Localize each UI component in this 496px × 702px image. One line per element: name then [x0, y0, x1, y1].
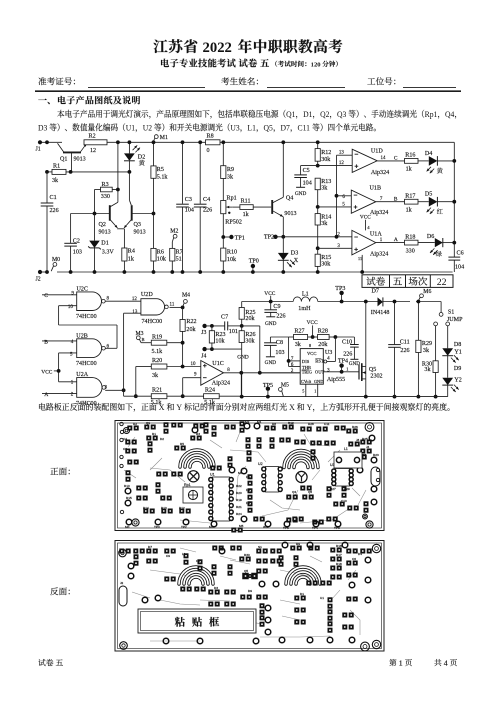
svg-text:10k: 10k	[157, 257, 167, 263]
wire: U1A gnd pin	[361, 255, 363, 272]
svg-text:C3: C3	[123, 447, 127, 451]
svg-text:1: 1	[314, 388, 316, 393]
svg-text:A: A	[394, 237, 398, 243]
svg-text:13: 13	[339, 151, 345, 156]
svg-text:GND: GND	[314, 379, 324, 384]
svg-text:1: 1	[71, 381, 74, 386]
svg-text:U1A: U1A	[370, 232, 382, 238]
svg-text:104: 104	[303, 180, 312, 186]
capacitor C11	[394, 302, 396, 345]
resistor R5	[153, 142, 155, 166]
svg-text:TP4: TP4	[312, 526, 318, 530]
svg-text:C11: C11	[324, 422, 330, 426]
svg-text:M4: M4	[182, 293, 190, 299]
svg-text:12: 12	[90, 148, 96, 154]
wire: U1A output A	[376, 242, 405, 244]
pcb back sticker frame 粘贴框	[138, 609, 256, 633]
svg-text:4: 4	[327, 356, 330, 361]
svg-text:C4: C4	[203, 197, 210, 203]
svg-text:M0: M0	[125, 525, 130, 529]
svg-text:Q5: Q5	[264, 123, 273, 132]
svg-text:101: 101	[229, 329, 238, 335]
svg-text:VCC: VCC	[307, 320, 318, 326]
svg-text:Q1: Q1	[286, 110, 295, 119]
svg-text:Q5: Q5	[244, 569, 248, 573]
test point TP0	[251, 264, 255, 268]
svg-text:U1: U1	[126, 123, 135, 132]
svg-text:L1: L1	[182, 552, 186, 556]
svg-text:10k: 10k	[227, 257, 237, 263]
svg-text:Rp1: Rp1	[425, 110, 438, 119]
svg-text:R9: R9	[227, 167, 234, 173]
svg-text:U1: U1	[210, 473, 215, 477]
pcb sentence	[39, 403, 450, 412]
svg-text:1k: 1k	[243, 212, 250, 218]
svg-text:104: 104	[185, 207, 194, 213]
svg-text:51: 51	[176, 257, 182, 263]
resistor R17	[405, 199, 419, 204]
svg-text:74HC00: 74HC00	[76, 361, 97, 367]
svg-text:C11: C11	[400, 340, 410, 346]
svg-text:R10: R10	[124, 484, 130, 488]
svg-text:74HC00: 74HC00	[142, 319, 163, 325]
svg-text:TP5: TP5	[283, 526, 289, 530]
wire: R3 to zener node	[95, 189, 101, 191]
svg-text:R29: R29	[422, 341, 432, 347]
resistor R8	[206, 140, 221, 145]
svg-text:Y1: Y1	[454, 349, 461, 355]
svg-text:TP0: TP0	[154, 525, 160, 529]
svg-text:Y: Y	[176, 403, 182, 412]
LED D4	[418, 160, 429, 162]
svg-text:Y: Y	[307, 403, 313, 412]
svg-text:L1: L1	[344, 447, 348, 451]
svg-text:11: 11	[170, 303, 175, 308]
svg-text:1k: 1k	[128, 256, 135, 262]
svg-text:C11: C11	[298, 123, 310, 132]
test point TP4	[339, 363, 343, 367]
NAND gate U2B	[77, 339, 102, 358]
svg-text:VCC: VCC	[264, 291, 275, 297]
svg-text:R11: R11	[241, 198, 251, 204]
svg-text:D1: D1	[303, 110, 312, 119]
svg-text:3k: 3k	[295, 342, 302, 348]
svg-text:330: 330	[101, 194, 110, 200]
inductor L1	[293, 297, 318, 302]
pcb front pad clusters	[127, 426, 132, 431]
svg-text:R18: R18	[336, 562, 342, 566]
svg-text:D7: D7	[281, 123, 290, 132]
svg-text:5.1k: 5.1k	[157, 174, 169, 180]
wire: U2A.3 to U2D.13 vertical	[123, 313, 125, 396]
resistor R13	[315, 178, 320, 190]
svg-text:U2B: U2B	[76, 333, 88, 339]
svg-text:R17: R17	[405, 193, 415, 199]
svg-text:R26: R26	[245, 332, 255, 338]
svg-text:R21: R21	[236, 505, 242, 509]
svg-text:VCC: VCC	[307, 351, 316, 356]
svg-text:C: C	[394, 155, 398, 161]
pcb front IC U3	[336, 469, 350, 487]
svg-text:RP502: RP502	[225, 219, 242, 225]
svg-text:U1C: U1C	[212, 361, 224, 367]
svg-text:330: 330	[406, 248, 415, 254]
pcb back pad clusters	[146, 549, 151, 554]
node J3	[202, 324, 206, 328]
pcb back big pads	[242, 573, 249, 580]
svg-text:R17: R17	[336, 553, 342, 557]
svg-text:S1: S1	[448, 310, 454, 316]
pcb front arc opening X	[190, 460, 204, 467]
capacitor C1	[46, 172, 48, 203]
svg-text:R6: R6	[157, 250, 164, 256]
wire: U1C pin 9 feedback node	[183, 377, 201, 379]
svg-text:11: 11	[358, 256, 362, 261]
svg-text:22: 22	[437, 277, 447, 288]
svg-text:J4: J4	[201, 353, 206, 359]
wire: U2C.8 to U2D.12	[105, 300, 141, 302]
wire: R3 to VCC column	[112, 189, 118, 191]
wire: U1D output C	[377, 160, 404, 162]
resistor R16	[405, 159, 419, 164]
svg-text:IN4148: IN4148	[371, 310, 390, 316]
svg-text:1k: 1k	[406, 167, 413, 173]
svg-text:Q5: Q5	[308, 490, 312, 494]
capacitor C9	[270, 296, 272, 310]
svg-text:Y2: Y2	[454, 377, 461, 383]
svg-text:8: 8	[227, 368, 230, 373]
wire: U1C output	[224, 372, 301, 374]
svg-text:2302: 2302	[370, 373, 382, 379]
svg-text:D9: D9	[454, 366, 461, 372]
wire: OUT to Q5 gate	[323, 371, 359, 373]
svg-text:J3: J3	[356, 438, 360, 442]
node J2	[38, 270, 42, 274]
wire: Q4 emitter / TP2 line	[282, 217, 284, 237]
NAND gate U2D	[141, 299, 165, 315]
jumper M5	[279, 388, 283, 392]
svg-text:TRIG: TRIG	[302, 370, 313, 375]
wire: U1B output B	[376, 201, 405, 203]
test point TP5	[266, 387, 270, 391]
NAND gate U2C	[77, 292, 102, 311]
svg-text:TP4: TP4	[338, 358, 348, 364]
resistor R24	[204, 394, 220, 399]
svg-text:D4: D4	[425, 151, 432, 157]
svg-text:9013: 9013	[74, 156, 86, 162]
svg-text:U1B: U1B	[370, 186, 382, 192]
svg-text:12: 12	[339, 161, 345, 166]
resistor R11	[232, 206, 240, 208]
resistor R22	[182, 307, 184, 319]
wire: Q5 source	[365, 379, 367, 397]
svg-text:Aip555: Aip555	[327, 377, 345, 383]
timer U3 Aip555	[300, 349, 323, 385]
svg-text:TP3: TP3	[334, 526, 340, 530]
svg-text:1: 1	[380, 238, 383, 243]
svg-text:TP5: TP5	[263, 383, 273, 389]
svg-text:Aip324: Aip324	[371, 170, 389, 176]
resistor R29	[417, 302, 419, 341]
svg-text:D7: D7	[372, 289, 379, 295]
capacitor C4	[199, 142, 201, 204]
svg-text:C7: C7	[362, 453, 366, 457]
jumper M3	[136, 336, 140, 340]
svg-text:VCC: VCC	[41, 369, 52, 375]
svg-text:D7: D7	[148, 545, 152, 549]
svg-text:R3: R3	[102, 182, 109, 188]
svg-text:226: 226	[276, 314, 285, 320]
wire: right rail (LED common)	[453, 142, 455, 257]
transistor Q2	[109, 205, 111, 221]
NAND gate U2A	[77, 378, 102, 398]
svg-text:R5: R5	[180, 442, 184, 446]
switch S1 JUMP	[440, 302, 442, 313]
resistor R7	[171, 242, 173, 249]
svg-text:R1: R1	[53, 164, 60, 170]
label: D6 color	[436, 251, 442, 257]
wire: RST column	[334, 337, 336, 362]
svg-text:Q5: Q5	[369, 367, 376, 373]
paragraph	[57, 110, 456, 119]
svg-text:X: X	[159, 403, 165, 412]
svg-text:TP0: TP0	[249, 258, 259, 264]
op-amp U1D	[352, 149, 377, 172]
svg-text:U2: U2	[258, 462, 263, 466]
capacitor C5	[300, 166, 302, 175]
svg-text:R10: R10	[227, 250, 237, 256]
svg-text:9: 9	[71, 292, 74, 297]
svg-text:R12: R12	[179, 506, 185, 510]
LED D9 (Y2)	[442, 378, 453, 385]
svg-text:R13: R13	[321, 179, 331, 185]
svg-text:D5: D5	[425, 192, 432, 198]
svg-text:20k: 20k	[318, 342, 328, 348]
svg-text:B: B	[142, 337, 145, 342]
svg-text:R13: R13	[161, 506, 167, 510]
resistor R1	[52, 169, 66, 174]
resistor R30	[435, 326, 437, 361]
svg-text:R29: R29	[344, 487, 350, 491]
wire: summing node to U1C pin10	[167, 366, 201, 368]
wire: Q2 collector to VCC	[117, 142, 119, 202]
svg-text:Q2: Q2	[99, 222, 106, 228]
svg-text:226: 226	[203, 207, 212, 213]
pcb back oblong hole	[119, 586, 127, 606]
svg-text:C2: C2	[73, 239, 80, 245]
svg-text:30k: 30k	[245, 338, 255, 344]
svg-text:103: 103	[275, 350, 284, 356]
svg-text:10: 10	[191, 362, 197, 367]
LED D3 (X group)	[282, 237, 284, 253]
resistor R21	[151, 394, 167, 399]
svg-text:D2: D2	[138, 155, 145, 161]
wire: R20 branch	[136, 366, 152, 368]
resistor R2	[84, 140, 107, 145]
svg-text:R24: R24	[236, 512, 242, 516]
svg-text:TP1: TP1	[235, 236, 245, 242]
svg-text:R20: R20	[236, 491, 242, 495]
jumper M6	[420, 294, 424, 298]
node J1	[38, 140, 42, 144]
stamp table 试卷/五/场次/22	[362, 275, 453, 288]
svg-text:13: 13	[132, 310, 138, 315]
svg-text:Aip324: Aip324	[370, 210, 388, 216]
transistor Q1	[63, 151, 81, 153]
svg-text:M1: M1	[257, 420, 262, 424]
pcb front traces	[150, 468, 185, 482]
svg-text:X: X	[289, 403, 295, 412]
wire: DIS/THR column	[288, 337, 290, 367]
svg-text:R22: R22	[236, 484, 242, 488]
svg-text:C4: C4	[123, 437, 127, 441]
capacitor C8	[270, 336, 288, 338]
label: D5 color	[437, 208, 443, 213]
svg-text:226: 226	[400, 348, 409, 354]
svg-text:Aip324: Aip324	[212, 380, 230, 386]
wire: R27/R28 top wire	[312, 325, 314, 337]
svg-text:Rp1: Rp1	[184, 483, 191, 487]
resistor R23	[211, 326, 213, 331]
pcb front Y mark	[296, 471, 307, 482]
svg-text:U3: U3	[230, 123, 239, 132]
svg-text:D3: D3	[38, 123, 47, 132]
svg-text:R27: R27	[330, 487, 336, 491]
wire: Q1 base node	[47, 171, 52, 173]
pcb front IC U1	[213, 477, 230, 521]
svg-text:6: 6	[107, 345, 110, 350]
svg-text:9: 9	[194, 372, 197, 377]
svg-text:C8: C8	[276, 340, 283, 346]
svg-text:120: 120	[311, 61, 322, 68]
resistor R18	[405, 240, 419, 245]
pcb front oblong hole	[371, 467, 380, 486]
svg-text:R20: R20	[152, 358, 162, 364]
svg-text:D3: D3	[291, 250, 298, 256]
svg-text:9013: 9013	[284, 211, 296, 217]
svg-text:CVolt: CVolt	[301, 379, 312, 384]
pcb back rings	[128, 563, 134, 569]
pcb front edge vias	[120, 422, 123, 425]
svg-text:226: 226	[50, 208, 59, 214]
svg-text:U2C: U2C	[77, 286, 89, 292]
svg-text:D1: D1	[300, 592, 304, 596]
capacitor C6	[448, 256, 460, 258]
label: D2 color	[139, 160, 145, 166]
svg-text:4: 4	[367, 225, 370, 230]
svg-text:30k: 30k	[321, 262, 331, 268]
svg-text:C6: C6	[457, 251, 464, 257]
svg-text:R30: R30	[244, 553, 250, 557]
svg-text:Q1: Q1	[146, 421, 150, 425]
svg-text:GND: GND	[237, 355, 249, 361]
LED D5	[418, 201, 429, 203]
svg-text:D1: D1	[101, 240, 108, 246]
wire: ground bottom rail	[40, 271, 49, 273]
svg-text:R19: R19	[152, 335, 162, 341]
svg-text:C10: C10	[342, 339, 352, 345]
svg-text:R25: R25	[362, 437, 368, 441]
svg-text:R8: R8	[207, 133, 214, 139]
svg-text:U3: U3	[325, 350, 332, 356]
svg-text:C1: C1	[50, 195, 57, 201]
svg-text:R18: R18	[405, 234, 415, 240]
svg-text:D3: D3	[214, 586, 218, 590]
svg-text:3: 3	[105, 386, 108, 391]
svg-text:C8: C8	[196, 559, 200, 563]
jumper M1	[154, 135, 158, 139]
subtitle	[161, 59, 169, 67]
wire: U2A.3 output node	[105, 389, 123, 391]
svg-text:D5: D5	[246, 475, 250, 479]
PCB front board	[115, 421, 384, 531]
svg-text:5: 5	[302, 388, 304, 393]
capacitor C7	[207, 325, 225, 327]
wire: U2B output	[105, 347, 117, 349]
wire: lower ground rail	[242, 396, 448, 398]
wire: input top rail from J1 to Q1 collector	[40, 141, 62, 143]
pcb front mount holes	[124, 428, 130, 434]
svg-text:D8: D8	[246, 501, 250, 505]
resistor R10	[221, 248, 226, 261]
svg-text:W5: W5	[263, 525, 268, 529]
svg-text:2: 2	[291, 369, 294, 374]
ground (J4/R26)	[241, 349, 243, 397]
resistor R6	[151, 248, 156, 261]
svg-text:R28: R28	[308, 422, 314, 426]
svg-text:R2: R2	[89, 133, 96, 139]
svg-text:Q3: Q3	[337, 110, 346, 119]
svg-text:Q2: Q2	[320, 110, 329, 119]
svg-text:3: 3	[327, 369, 330, 374]
svg-text:2022: 2022	[203, 40, 232, 56]
svg-text:U2D: U2D	[141, 292, 153, 298]
svg-text:14: 14	[381, 156, 387, 161]
LED D6	[418, 242, 435, 244]
section rule	[35, 90, 461, 92]
svg-text:Rp1: Rp1	[227, 196, 237, 202]
resistor R27	[294, 335, 308, 340]
svg-text:R2: R2	[133, 422, 137, 426]
footer	[38, 659, 45, 666]
svg-text:3k: 3k	[152, 373, 159, 379]
capacitor C10	[353, 337, 355, 344]
svg-text:1k: 1k	[406, 207, 413, 213]
jumper M0	[53, 263, 57, 267]
svg-text:M2: M2	[170, 228, 178, 234]
svg-text:R8: R8	[272, 422, 276, 426]
svg-text:M1: M1	[160, 135, 168, 141]
wire: TRIG input	[260, 372, 300, 374]
svg-text:C: C	[44, 293, 48, 299]
wire: Q3 collector drop	[128, 172, 130, 200]
form row	[39, 77, 47, 85]
wire: R11 to Q4 base	[253, 206, 271, 208]
pcb back mount holes	[119, 549, 127, 557]
svg-text:A: A	[44, 392, 48, 398]
wire: CVolt pin stub	[305, 384, 307, 396]
svg-text:Q4: Q4	[292, 490, 296, 494]
side labels	[50, 468, 58, 475]
svg-text:TP3: TP3	[335, 286, 345, 292]
wire: J3 node to TRIG	[242, 325, 260, 327]
svg-text:RST: RST	[315, 358, 324, 363]
svg-text:1: 1	[399, 659, 403, 668]
svg-text:L1: L1	[302, 291, 309, 297]
svg-text:R21: R21	[152, 388, 162, 394]
LED D8 (Y1)	[447, 326, 449, 349]
svg-text:3k: 3k	[423, 348, 430, 354]
